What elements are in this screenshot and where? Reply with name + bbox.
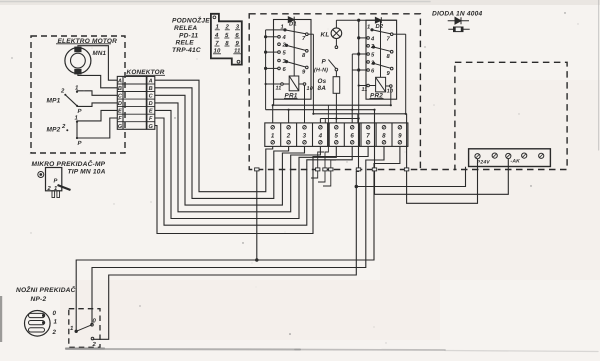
svg-text:MP2: MP2 bbox=[47, 127, 61, 134]
svg-text:P24V: P24V bbox=[477, 159, 490, 165]
svg-text:TIP MN 10A: TIP MN 10A bbox=[68, 169, 106, 176]
svg-text:NOŽNI PREKIDAČ: NOŽNI PREKIDAČ bbox=[16, 286, 76, 294]
svg-text:1: 1 bbox=[75, 85, 79, 92]
svg-text:2: 2 bbox=[47, 185, 52, 192]
svg-text:MP1: MP1 bbox=[47, 98, 61, 105]
svg-text:F: F bbox=[149, 116, 153, 122]
svg-text:2: 2 bbox=[370, 43, 375, 50]
svg-text:1: 1 bbox=[271, 132, 275, 139]
svg-text:RELE: RELE bbox=[176, 40, 195, 47]
svg-text:G: G bbox=[118, 124, 123, 130]
svg-text:5: 5 bbox=[371, 52, 375, 58]
svg-text:3: 3 bbox=[283, 58, 287, 65]
svg-text:9: 9 bbox=[398, 132, 402, 139]
svg-text:11: 11 bbox=[276, 86, 282, 92]
svg-text:10: 10 bbox=[387, 88, 393, 94]
svg-text:2: 2 bbox=[282, 42, 287, 49]
svg-text:F: F bbox=[118, 116, 122, 122]
svg-text:E: E bbox=[149, 109, 153, 115]
svg-text:TRP-41C: TRP-41C bbox=[172, 47, 201, 54]
svg-text:DIODA 1N 4004: DIODA 1N 4004 bbox=[432, 11, 482, 18]
svg-text:1: 1 bbox=[281, 25, 284, 31]
svg-text:7: 7 bbox=[366, 132, 370, 139]
svg-text:1: 1 bbox=[54, 186, 57, 192]
svg-text:3: 3 bbox=[371, 59, 375, 66]
svg-text:2: 2 bbox=[52, 329, 57, 336]
svg-text:3: 3 bbox=[303, 132, 307, 139]
svg-text:RELEA: RELEA bbox=[174, 25, 197, 32]
svg-text:1: 1 bbox=[367, 25, 370, 31]
svg-text:6: 6 bbox=[350, 132, 354, 139]
svg-text:D1: D1 bbox=[289, 22, 297, 28]
svg-text:PODNOŽJE: PODNOŽJE bbox=[172, 17, 210, 25]
svg-text:4: 4 bbox=[282, 35, 287, 41]
svg-text:9: 9 bbox=[387, 70, 391, 77]
svg-text:2: 2 bbox=[92, 341, 97, 348]
svg-text:8A: 8A bbox=[318, 85, 327, 92]
svg-text:A: A bbox=[117, 79, 122, 85]
svg-text:(H-N): (H-N) bbox=[314, 68, 328, 74]
svg-text:2: 2 bbox=[60, 88, 65, 95]
svg-text:P: P bbox=[54, 179, 58, 185]
svg-text:0: 0 bbox=[93, 318, 97, 325]
svg-text:0: 0 bbox=[53, 310, 57, 317]
svg-text:8: 8 bbox=[382, 132, 386, 139]
svg-text:G: G bbox=[149, 124, 154, 130]
svg-text:2: 2 bbox=[286, 132, 291, 139]
svg-text:MIKRO PREKIDAČ-MP: MIKRO PREKIDAČ-MP bbox=[32, 160, 106, 168]
svg-text:6: 6 bbox=[283, 66, 287, 73]
svg-text:B: B bbox=[118, 86, 122, 92]
svg-text:-AK: -AK bbox=[511, 159, 521, 165]
svg-text:5: 5 bbox=[283, 51, 287, 57]
svg-text:KL: KL bbox=[321, 32, 330, 39]
svg-text:6: 6 bbox=[371, 67, 375, 74]
svg-text:P: P bbox=[322, 59, 327, 66]
svg-text:7: 7 bbox=[387, 37, 391, 43]
svg-text:4: 4 bbox=[318, 132, 323, 139]
svg-text:11: 11 bbox=[362, 87, 368, 93]
svg-text:A: A bbox=[148, 79, 153, 85]
svg-text:1: 1 bbox=[75, 115, 79, 122]
svg-text:E: E bbox=[118, 109, 122, 115]
svg-text:8: 8 bbox=[302, 52, 306, 59]
svg-text:MN1: MN1 bbox=[93, 50, 107, 57]
svg-text:8: 8 bbox=[387, 53, 391, 60]
svg-text:D: D bbox=[118, 101, 122, 107]
svg-text:10: 10 bbox=[307, 86, 313, 92]
svg-text:B: B bbox=[149, 86, 153, 92]
svg-text:D: D bbox=[149, 101, 153, 107]
svg-text:7: 7 bbox=[302, 36, 306, 42]
svg-text:1: 1 bbox=[70, 325, 74, 332]
svg-text:4: 4 bbox=[370, 36, 375, 42]
svg-text:D2: D2 bbox=[376, 23, 384, 30]
svg-text:5: 5 bbox=[334, 132, 338, 139]
svg-text:9: 9 bbox=[302, 69, 306, 76]
svg-text:1: 1 bbox=[54, 319, 58, 326]
svg-text:Os: Os bbox=[318, 78, 327, 85]
svg-text:C: C bbox=[149, 94, 154, 100]
svg-text:NP-2: NP-2 bbox=[31, 296, 47, 303]
svg-text:2: 2 bbox=[61, 123, 66, 130]
svg-text:PD-11: PD-11 bbox=[179, 33, 198, 40]
